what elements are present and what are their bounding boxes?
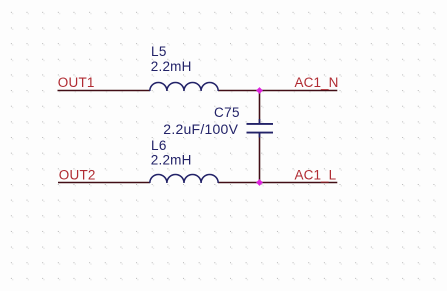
svg-text:OUT1: OUT1 (58, 75, 95, 90)
capacitor C75 (247, 119, 274, 138)
svg-text:L5: L5 (151, 44, 167, 59)
svg-text:C75: C75 (214, 105, 240, 120)
wire vertical C75 top (259, 91, 261, 124)
inductor L5 (150, 82, 218, 91)
junction node top (AC1_N net) (256, 87, 263, 94)
svg-text:OUT2: OUT2 (59, 167, 96, 182)
inductor L6 (150, 174, 218, 183)
junction node bottom (AC1_L net) (256, 179, 263, 186)
svg-text:AC1_L: AC1_L (295, 167, 337, 182)
wire OUT1 to L5 pin 1 (58, 90, 151, 92)
svg-text:2.2uF/100V: 2.2uF/100V (163, 121, 238, 137)
svg-text:2.2mH: 2.2mH (151, 59, 192, 74)
wire L6 pin 2 to AC1_L node (218, 182, 337, 184)
wire L5 pin 2 to AC1_N node (218, 90, 337, 92)
svg-text:AC1_N: AC1_N (295, 75, 339, 90)
wire vertical C75 bottom (259, 133, 261, 183)
svg-text:2.2mH: 2.2mH (151, 153, 192, 168)
wire OUT2 to L6 pin 1 (58, 182, 150, 184)
svg-text:L6: L6 (151, 138, 167, 153)
